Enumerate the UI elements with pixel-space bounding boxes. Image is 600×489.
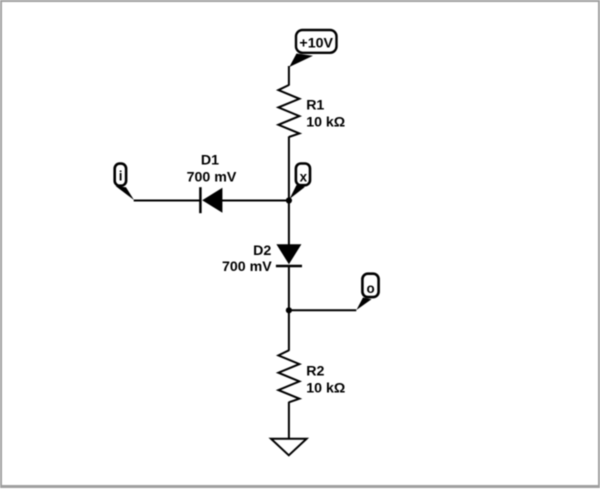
terminal o <box>356 274 378 310</box>
resistor R1 <box>278 85 299 137</box>
svg-text:+10V: +10V <box>299 36 333 52</box>
wire node to terminal o <box>289 309 356 311</box>
svg-text:D1: D1 <box>201 153 219 169</box>
wire D1 to node x <box>222 200 289 202</box>
wire node x to D2 <box>288 201 290 246</box>
svg-text:D2: D2 <box>253 243 271 259</box>
wire +10V to R1 <box>288 66 290 86</box>
svg-text:R1: R1 <box>306 97 324 113</box>
svg-text:R2: R2 <box>306 363 324 379</box>
node x junction <box>286 197 292 203</box>
svg-text:o: o <box>367 281 375 296</box>
svg-text:700 mV: 700 mV <box>222 259 272 275</box>
D1 value label <box>187 153 237 186</box>
R1 value label <box>306 97 345 130</box>
svg-text:10 kΩ: 10 kΩ <box>306 380 345 396</box>
D2 value label <box>222 243 272 275</box>
wire node to R2 <box>288 310 290 351</box>
svg-text:x: x <box>300 170 308 185</box>
wire R2 to ground <box>288 402 290 439</box>
svg-text:i: i <box>119 168 123 183</box>
diode D1 <box>200 187 222 213</box>
svg-text:700 mV: 700 mV <box>187 170 237 186</box>
ground <box>271 439 307 456</box>
node o junction <box>286 307 292 313</box>
net flag +10V <box>289 30 336 67</box>
resistor R2 <box>278 350 299 402</box>
terminal i <box>115 164 134 200</box>
diode D2 <box>276 244 302 266</box>
R2 value label <box>306 363 345 396</box>
wire R1 to node x <box>288 137 290 201</box>
wire terminal i to D1 <box>134 200 201 202</box>
wire D2 to node o <box>288 266 290 310</box>
svg-text:10 kΩ: 10 kΩ <box>306 115 345 131</box>
terminal x <box>290 164 311 200</box>
